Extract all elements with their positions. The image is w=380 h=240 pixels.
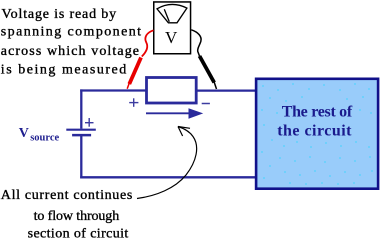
red probe lead — [127, 30, 153, 89]
wire left vertical upper — [80, 89, 82, 128]
svg-text:source: source — [30, 132, 59, 143]
callout arrow (current note to wire) — [137, 127, 197, 199]
annotation: voltage note (top-left) — [1, 7, 141, 77]
svg-text:across which voltage: across which voltage — [1, 44, 139, 59]
node plus label (left of resistor) — [129, 98, 138, 107]
svg-text:The rest of: The rest of — [282, 103, 353, 120]
voltmeter U1 body — [154, 2, 191, 54]
svg-text:All current continues: All current continues — [1, 188, 133, 203]
svg-text:to flow through: to flow through — [34, 209, 120, 224]
wire left vertical lower — [80, 136, 82, 178]
block: the rest of the circuit — [256, 79, 378, 189]
battery V_source negative plate — [72, 134, 91, 137]
svg-text:the circuit: the circuit — [277, 123, 352, 140]
label V_source — [19, 126, 60, 143]
voltmeter dial — [157, 4, 187, 22]
wire top-right (resistor to block) — [197, 89, 256, 91]
voltmeter needle — [164, 9, 169, 22]
block dither dots — [261, 83, 373, 185]
node minus label (right of resistor) — [202, 103, 210, 105]
battery plus label — [85, 118, 94, 127]
wire bottom return — [80, 176, 256, 178]
battery V_source positive plate — [66, 129, 96, 131]
block label — [277, 103, 353, 139]
annotation: current note (bottom-left) — [1, 188, 133, 240]
svg-text:V: V — [19, 126, 29, 141]
current direction arrow — [146, 108, 203, 119]
black probe lead — [191, 30, 216, 89]
svg-text:section of circuit: section of circuit — [28, 226, 129, 238]
svg-text:Voltage is read by: Voltage is read by — [2, 7, 117, 22]
resistor (component being measured) — [147, 78, 197, 104]
svg-text:V: V — [165, 28, 178, 47]
wire top-left (source to resistor) — [80, 89, 146, 91]
svg-text:is being measured: is being measured — [1, 62, 127, 77]
